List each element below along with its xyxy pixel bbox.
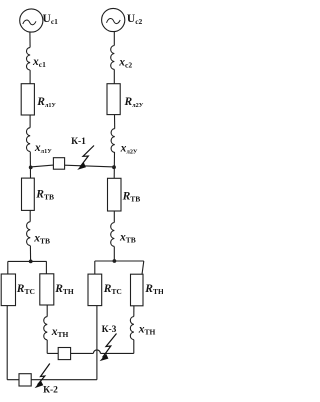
svg-text:К-1: К-1 (71, 137, 86, 147)
svg-text:К-3: К-3 (102, 325, 117, 335)
svg-text:К-2: К-2 (43, 386, 58, 396)
